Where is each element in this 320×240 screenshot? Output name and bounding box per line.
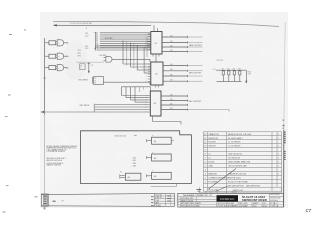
svg-text:C7: C7: [306, 208, 312, 213]
